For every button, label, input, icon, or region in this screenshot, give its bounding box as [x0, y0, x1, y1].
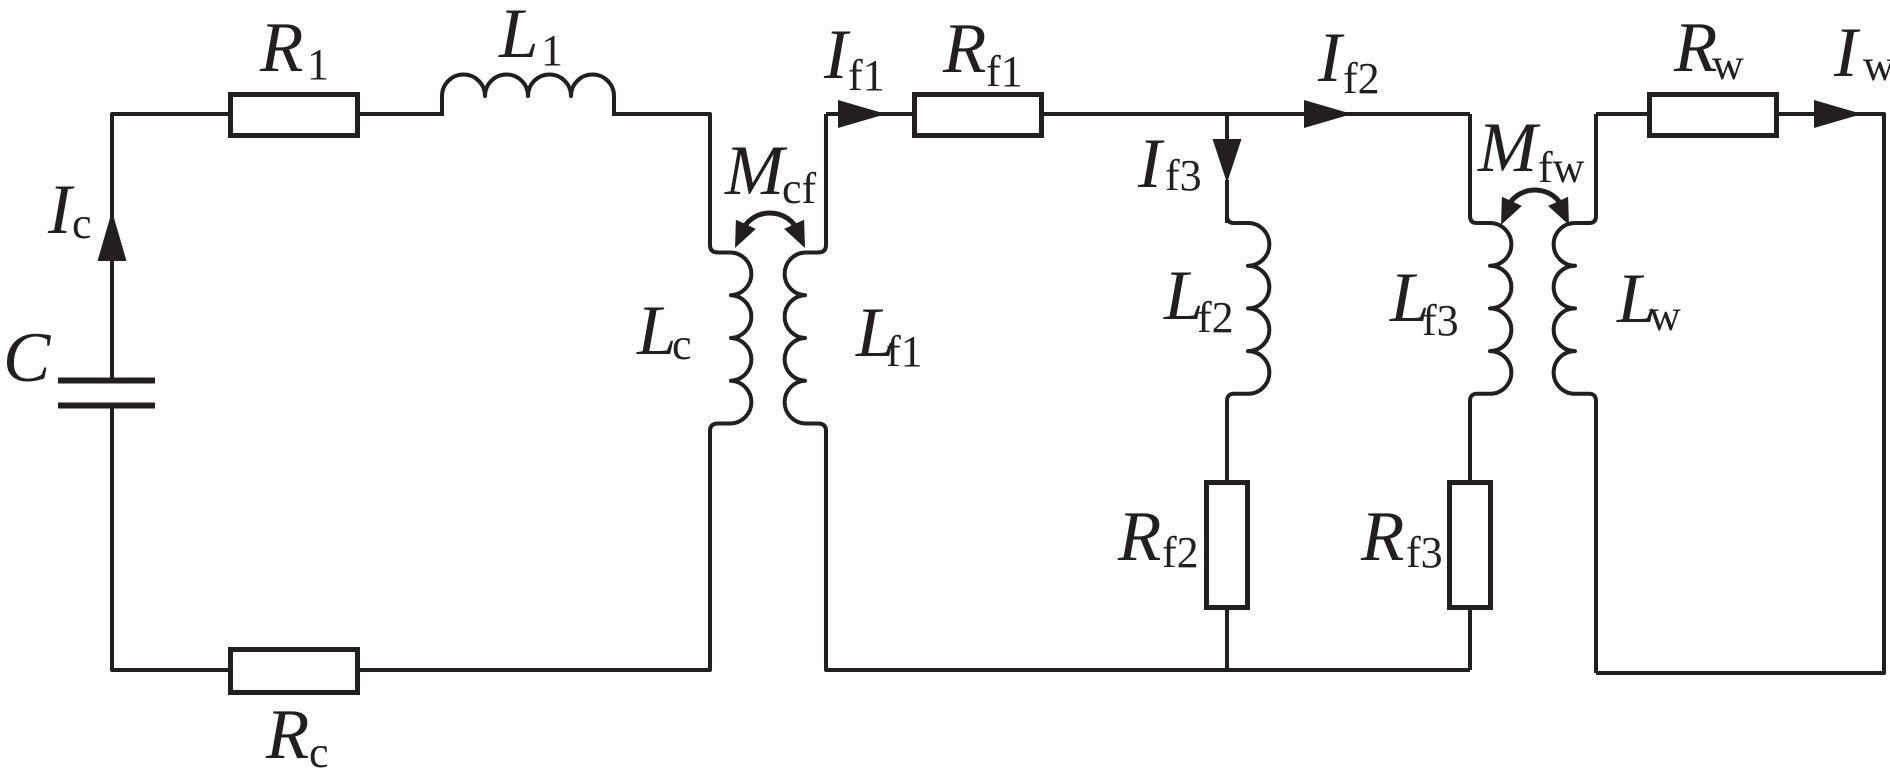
arrowhead Mfw right [1548, 197, 1569, 225]
arrow Ic [98, 211, 127, 261]
svg-text:f2: f2 [1197, 293, 1234, 342]
arrow If1 [838, 100, 886, 128]
svg-text:I: I [47, 171, 75, 249]
svg-text:c: c [672, 320, 692, 369]
svg-text:I: I [1137, 125, 1165, 203]
svg-text:R: R [942, 10, 986, 88]
svg-text:f3: f3 [1422, 296, 1459, 345]
svg-text:C: C [3, 319, 52, 397]
wire Rf3 to bottom rail [1468, 610, 1472, 670]
arrow Iw [1814, 100, 1862, 128]
inductor Lf3 and wire to Rf3 [1470, 114, 1511, 480]
wire top-left: capacitor to R1 [112, 114, 228, 380]
inductor Lf1 and wire down, middle bottom rail [785, 114, 1470, 670]
svg-text:R: R [1360, 498, 1404, 576]
svg-text:f2: f2 [1162, 528, 1199, 577]
svg-text:w: w [1863, 41, 1890, 90]
capacitor C bottom plate [58, 403, 155, 409]
wire junction node to If3 arrow [1225, 114, 1229, 140]
svg-text:w: w [1649, 291, 1681, 340]
capacitor C top plate [58, 378, 155, 384]
wire bottom-left: Rc to capacitor [112, 406, 228, 670]
svg-text:f3: f3 [1165, 151, 1202, 200]
svg-text:w: w [1712, 40, 1744, 89]
wire L1 to Lc top [614, 114, 710, 245]
svg-text:1: 1 [541, 26, 563, 75]
svg-text:L: L [636, 292, 677, 370]
svg-text:R: R [1673, 9, 1717, 87]
svg-text:cf: cf [782, 164, 817, 213]
arrowhead Mcf right [784, 220, 805, 248]
wire Rw to right edge, right side, right bottom rail [1596, 114, 1884, 673]
resistor Rf1 [915, 95, 1042, 136]
svg-text:c: c [72, 199, 92, 248]
resistor Rc [231, 650, 358, 693]
svg-text:f1: f1 [986, 47, 1023, 96]
svg-text:c: c [309, 728, 329, 777]
wire If3 arrow to Lf2 [1225, 180, 1229, 223]
arrow If3 [1213, 139, 1242, 183]
svg-text:I: I [823, 16, 851, 94]
svg-text:f2: f2 [1343, 54, 1380, 103]
svg-text:L: L [498, 0, 539, 73]
svg-text:I: I [1833, 14, 1861, 92]
svg-text:f1: f1 [848, 51, 885, 100]
wire Rf1 to Lf3 corner [1044, 112, 1470, 116]
svg-text:f3: f3 [1406, 528, 1443, 577]
coupling arc Mcf [741, 213, 799, 233]
svg-text:1: 1 [307, 40, 329, 89]
resistor R1 [231, 95, 358, 136]
inductor Lc and wire down to bottom rail [360, 245, 751, 670]
arrow If2 [1304, 100, 1352, 128]
svg-text:R: R [265, 696, 309, 774]
wire Rf2 to bottom rail [1225, 610, 1229, 670]
arrowhead Mfw left [1501, 197, 1522, 225]
svg-text:f1: f1 [886, 327, 923, 376]
resistor Rf2 [1207, 483, 1248, 608]
wire Lf1 top to Rf1 [826, 112, 912, 116]
arrowhead Mcf left [735, 220, 756, 248]
coupling arc Mfw [1506, 190, 1564, 210]
inductor Lf2 and wire to Rf2 [1227, 216, 1269, 480]
inductor Lw and wire down to right bottom rail [1554, 114, 1596, 673]
wire R1 to L1 [360, 112, 442, 116]
svg-text:R: R [1117, 498, 1161, 576]
svg-text:fw: fw [1538, 143, 1585, 192]
svg-text:I: I [1317, 19, 1345, 97]
resistor Rf3 [1450, 483, 1491, 608]
svg-text:R: R [259, 9, 303, 87]
wire Lw top to Rw [1596, 112, 1647, 116]
inductor L1 [442, 75, 614, 116]
svg-text:M: M [1477, 109, 1541, 187]
resistor Rw [1650, 95, 1777, 136]
svg-text:M: M [724, 132, 788, 210]
